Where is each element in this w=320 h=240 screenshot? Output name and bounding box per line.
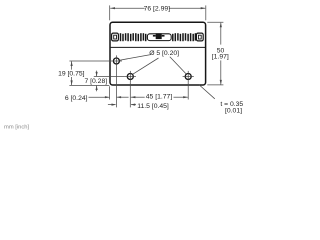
antenna bars left group: [121, 33, 146, 41]
svg-text:45 [1.77]: 45 [1.77]: [146, 94, 173, 101]
dimension 19 left: extension lines: [69, 61, 110, 85]
dimension 50 arrows: [220, 23, 222, 28]
dimension 6 leader and arrows: [89, 96, 129, 98]
svg-text:6 [0.24]: 6 [0.24]: [65, 95, 88, 102]
dimension 7: hole2 extension line: [94, 71, 125, 92]
dimension 19 arrows: [71, 61, 73, 66]
dimension 76 arrows: [110, 7, 115, 9]
chip wing right: [162, 35, 165, 37]
leader to hole1: [120, 55, 151, 61]
tag outline: [110, 22, 206, 85]
extension line hole3 below: [187, 82, 189, 99]
svg-text:19 [0.75]: 19 [0.75]: [58, 71, 85, 78]
svg-text:[1.97]: [1.97]: [212, 54, 229, 61]
dimension 7 arrow tails: [96, 71, 98, 77]
dimension 45 line: [131, 96, 188, 98]
svg-text:mm [inch]: mm [inch]: [4, 125, 30, 131]
dimension 7 arrows (outside): [96, 72, 98, 77]
antenna center loop: [147, 34, 171, 41]
dimension 76 top: extension lines: [110, 5, 206, 20]
svg-text:7 [0.28]: 7 [0.28]: [84, 78, 107, 85]
thickness leader: [199, 85, 215, 99]
svg-text:11.5 [0.45]: 11.5 [0.45]: [137, 103, 169, 110]
label divider line: [111, 46, 205, 48]
chip wing left: [153, 35, 156, 37]
antenna bars right group: [173, 33, 196, 41]
extension line hole1 below: [115, 67, 117, 108]
leader to hole3: [170, 57, 186, 74]
hole H2: [127, 74, 133, 80]
antenna left pad: [112, 33, 119, 41]
extension line tag left edge below: [109, 86, 111, 99]
chip: [156, 33, 162, 39]
dimension 50 right: extension lines: [207, 22, 223, 85]
dimension 19 line: [71, 61, 73, 69]
svg-text:[0.01]: [0.01]: [225, 107, 242, 114]
svg-text:Ø 5 [0.20]: Ø 5 [0.20]: [149, 50, 179, 57]
hole H1: [113, 58, 119, 64]
svg-text:76 [2.99]: 76 [2.99]: [144, 5, 171, 12]
antenna right pad: [196, 33, 203, 41]
dimension 76 line: [110, 7, 144, 9]
hole H2 crosshair: [125, 71, 136, 82]
extension line hole2 below: [129, 82, 131, 107]
hole H1 crosshair: [111, 55, 122, 66]
dimension 50 line: [220, 23, 222, 45]
leader to hole2: [133, 58, 159, 74]
dimension 45 arrows: [131, 96, 136, 98]
hole H3 crosshair: [183, 71, 194, 82]
dimension 11.5 line and arrows: [108, 104, 136, 106]
hole H3: [185, 74, 191, 80]
